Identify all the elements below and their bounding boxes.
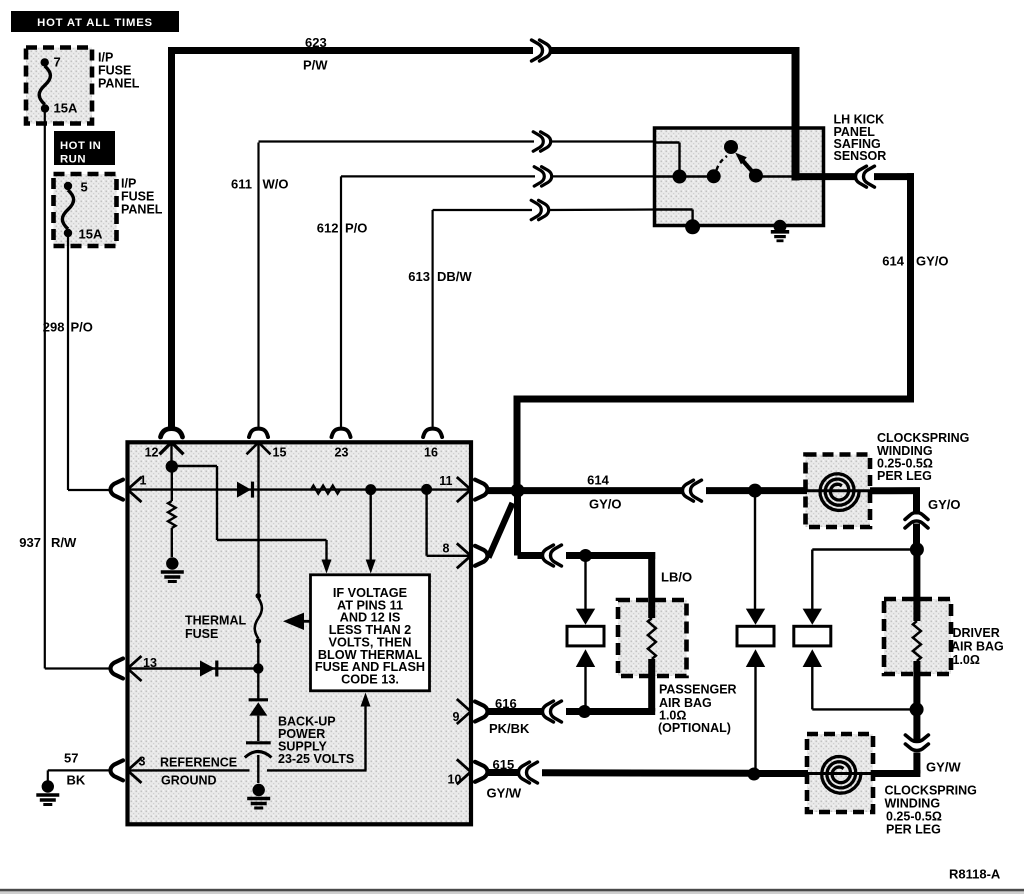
svg-text:P/O: P/O	[71, 320, 93, 335]
svg-text:I/P: I/P	[98, 51, 113, 65]
svg-text:GY/O: GY/O	[589, 497, 622, 512]
svg-text:DB/W: DB/W	[437, 269, 472, 284]
svg-text:W/O: W/O	[263, 177, 289, 192]
svg-text:937: 937	[19, 535, 41, 550]
svg-text:R8118-A: R8118-A	[949, 867, 1001, 882]
svg-text:623: 623	[305, 35, 327, 50]
svg-text:CLOCKSPRING: CLOCKSPRING	[885, 784, 977, 798]
svg-text:7: 7	[54, 55, 61, 70]
svg-text:DRIVER: DRIVER	[953, 626, 1000, 640]
svg-text:PASSENGER: PASSENGER	[659, 683, 737, 697]
svg-text:WINDING: WINDING	[885, 797, 941, 811]
svg-text:10: 10	[448, 773, 462, 787]
svg-text:CODE 13.: CODE 13.	[341, 673, 399, 687]
svg-text:I/P: I/P	[121, 177, 136, 191]
svg-text:SENSOR: SENSOR	[834, 149, 887, 163]
svg-text:12: 12	[145, 446, 159, 460]
svg-text:611: 611	[231, 177, 252, 192]
svg-text:614: 614	[587, 473, 609, 488]
svg-text:LB/O: LB/O	[661, 570, 692, 585]
svg-text:GY/O: GY/O	[916, 254, 949, 269]
svg-text:REFERENCE: REFERENCE	[160, 756, 237, 770]
svg-text:AIR BAG: AIR BAG	[951, 640, 1004, 654]
svg-text:3: 3	[139, 755, 146, 769]
svg-text:23-25 VOLTS: 23-25 VOLTS	[278, 752, 354, 766]
svg-text:FUSE: FUSE	[121, 190, 154, 204]
svg-text:R/W: R/W	[51, 535, 77, 550]
svg-text:614: 614	[882, 254, 904, 269]
svg-text:16: 16	[424, 446, 438, 460]
svg-text:GY/O: GY/O	[928, 497, 961, 512]
svg-text:P/O: P/O	[345, 221, 367, 236]
svg-text:612: 612	[317, 221, 339, 236]
svg-text:23: 23	[335, 446, 349, 460]
svg-text:PK/BK: PK/BK	[489, 721, 530, 736]
svg-text:PANEL: PANEL	[98, 77, 140, 91]
svg-text:BK: BK	[67, 773, 86, 788]
svg-text:PER LEG: PER LEG	[877, 469, 932, 483]
svg-text:616: 616	[495, 696, 517, 711]
svg-text:298: 298	[43, 320, 65, 335]
svg-text:PANEL: PANEL	[121, 203, 163, 217]
svg-text:15A: 15A	[79, 227, 103, 242]
svg-text:GY/W: GY/W	[926, 760, 961, 775]
svg-text:15A: 15A	[54, 101, 78, 116]
svg-text:HOT AT ALL TIMES: HOT AT ALL TIMES	[37, 17, 153, 29]
svg-text:5: 5	[81, 180, 88, 195]
svg-text:(OPTIONAL): (OPTIONAL)	[658, 721, 731, 735]
svg-text:PER LEG: PER LEG	[886, 823, 941, 837]
svg-text:9: 9	[453, 710, 460, 724]
svg-text:FUSE: FUSE	[98, 64, 131, 78]
svg-text:P/W: P/W	[303, 58, 328, 73]
svg-text:1: 1	[140, 474, 147, 488]
svg-text:THERMAL: THERMAL	[185, 614, 246, 628]
svg-text:0.25-0.5Ω: 0.25-0.5Ω	[886, 810, 942, 824]
svg-text:57: 57	[64, 751, 78, 766]
svg-text:FUSE: FUSE	[185, 627, 218, 641]
svg-text:8: 8	[443, 542, 450, 556]
svg-text:GY/W: GY/W	[487, 786, 522, 801]
svg-text:GROUND: GROUND	[161, 774, 217, 788]
svg-text:RUN: RUN	[60, 154, 86, 166]
svg-text:15: 15	[273, 446, 287, 460]
svg-text:HOT IN: HOT IN	[60, 140, 101, 152]
svg-text:1.0Ω: 1.0Ω	[953, 653, 980, 667]
svg-text:613: 613	[408, 269, 430, 284]
svg-text:CLOCKSPRING: CLOCKSPRING	[877, 431, 969, 445]
svg-text:615: 615	[493, 757, 515, 772]
svg-text:11: 11	[439, 474, 452, 488]
